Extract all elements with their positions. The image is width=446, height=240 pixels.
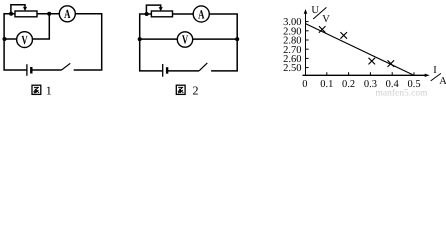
svg-text:A: A xyxy=(198,7,204,21)
svg-text:2: 2 xyxy=(193,84,199,98)
svg-text:2.50: 2.50 xyxy=(283,63,301,74)
svg-text:A: A xyxy=(64,7,70,21)
svg-text:U: U xyxy=(311,5,319,16)
svg-text:A: A xyxy=(439,76,446,87)
svg-text:manfen5.com: manfen5.com xyxy=(376,88,429,98)
svg-text:V: V xyxy=(182,33,188,47)
svg-text:V: V xyxy=(322,14,330,25)
svg-text:V: V xyxy=(21,33,27,47)
svg-text:0: 0 xyxy=(302,79,307,90)
svg-text:0.2: 0.2 xyxy=(342,79,355,90)
svg-text:I: I xyxy=(433,65,437,76)
svg-text:0.1: 0.1 xyxy=(320,79,333,90)
svg-text:1: 1 xyxy=(46,84,52,98)
